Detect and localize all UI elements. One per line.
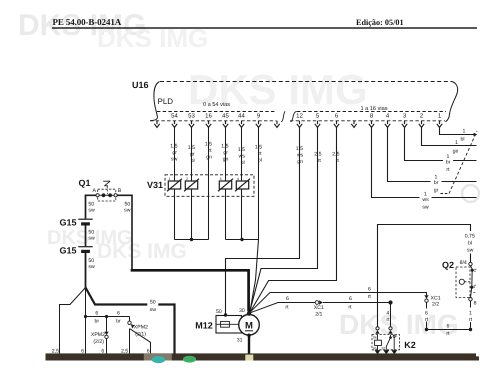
diode 1 [167, 179, 182, 192]
ground bar teal dot [152, 356, 166, 363]
wire Q1 A to G15 [86, 195, 97, 218]
junction dot right bar [240, 238, 243, 241]
Q1 bridge line [99, 194, 114, 196]
ground bar yellow smudge [245, 355, 253, 361]
ground bar end step [474, 356, 479, 360]
connector strip dashed line lower [150, 120, 277, 122]
pin arrow 16 [206, 121, 211, 128]
Q2 blade [471, 266, 473, 298]
pin arrow 3 [402, 121, 407, 128]
K2 contact blade [389, 336, 392, 339]
pin arrow 2 [419, 121, 424, 128]
wire pin 45 [225, 127, 227, 239]
control unit U16 PLD box [150, 82, 458, 122]
wire pin 16 [208, 127, 210, 239]
watermark ring right [462, 185, 479, 202]
wire label 6 rt [368, 286, 372, 300]
Q1 actuator lever [103, 181, 110, 186]
wire XC1 2/2 down to 6 rt bus [426, 302, 428, 329]
Q2 contact dot lower [470, 286, 473, 289]
wire pin 9 [258, 127, 260, 239]
solenoid coil symbol [216, 323, 221, 325]
pin arrow 5 [315, 121, 320, 128]
connector strip dashed line upper [157, 111, 277, 113]
terminal 50 junction dot [224, 313, 227, 316]
right group wires pins 12,5,6 [226, 127, 337, 313]
relay K2 [372, 327, 416, 354]
header rule [52, 27, 477, 29]
ground bar [46, 353, 477, 360]
wire pin 44 [241, 127, 243, 239]
wire label 50 sw [88, 202, 95, 214]
wire label 1 bl (pin1) [460, 129, 465, 143]
wire pin 12 to solenoid terminal 50 [226, 127, 300, 313]
wire Q2 terminal 8 to 6rt bus (1 rt) [470, 301, 472, 330]
pin arrow 1 [437, 121, 442, 128]
pin arrow 44 [239, 121, 244, 128]
wire label 1 br gr (pin4) [434, 174, 439, 193]
pin numbers row [171, 112, 442, 119]
Q1 contact dot left [102, 193, 106, 197]
junction blob 6rt/4rt corner [388, 300, 392, 304]
diode unit V31 dashed box [165, 175, 254, 197]
switch Q2 [442, 260, 477, 307]
pin arrow x354 [351, 121, 356, 128]
wire 6 rt bottom bus [427, 329, 471, 331]
connector XC1 2/1 symbol [315, 301, 319, 305]
pin arrow 8 [369, 121, 374, 128]
junction dot right [469, 328, 472, 331]
terminal 30 junction dot [247, 311, 251, 315]
G15 plate long [78, 246, 92, 248]
Q2 actuator dashed link [465, 281, 472, 283]
connector XPM2 2/2 [106, 317, 108, 332]
wire label 1,5 ws gn (pin12) [296, 146, 304, 165]
wire M12 terminal 30 to XC1 2/2 (6 rt) [250, 293, 427, 313]
wire label 50 sw [88, 229, 95, 241]
wire G15 down to Y node [85, 253, 87, 290]
wire label 0,75 bl sw [465, 234, 475, 254]
label XPM2 (2/1) [134, 325, 148, 338]
G15 plate long [78, 218, 92, 220]
label XC1 2/2 [431, 295, 441, 307]
G15 plate short thick [81, 222, 90, 225]
wire V31 right bar to M12 terminal 30 [250, 240, 259, 313]
U16 box top dashed edge [160, 81, 452, 83]
ground bar watermark light segment [144, 353, 172, 360]
diode 3 [218, 179, 233, 192]
wire label 1,5 ws bl (pin44) [238, 147, 246, 166]
wire label 50 sw [150, 299, 157, 313]
wire XPM2 2/1 to ground (2,5) [129, 329, 131, 354]
wire pin 8 [372, 127, 477, 197]
wire label 6 br [116, 310, 121, 324]
ground bar green dot [183, 356, 196, 363]
wire M12 terminal 30 to XC1 2/1 (6 rt) [250, 303, 316, 314]
label XC1 2/1 [314, 305, 324, 317]
diode 4 [235, 179, 250, 192]
wire label 2,5 rt (pin6) [332, 152, 339, 164]
wire label 1,5 rt bl (pin9) [255, 145, 262, 164]
connector group separator curve right [291, 111, 297, 122]
pin arrow 54 [172, 121, 177, 128]
wire label 1 ws sw (pin8) [422, 191, 429, 210]
Q1 dashed box [98, 189, 116, 201]
pin arrow 6 [334, 121, 339, 128]
pin arrow 45 [223, 121, 228, 128]
thick battery cable Q1 B to M12 terminal 30 [132, 269, 249, 312]
battery isolation switch Q1 [78, 178, 121, 201]
connector pin arrows [154, 121, 442, 128]
junction dot left [425, 328, 428, 331]
wire label 1 ge (pin2) [453, 140, 459, 154]
Q2 mechanism dashed box [456, 267, 470, 298]
Q1 terminal B circle [114, 194, 117, 197]
pin arrow x157 [154, 121, 159, 128]
Y node branch left to ground (2,5) [60, 288, 86, 354]
wire label 1 br rt (pin3) [446, 154, 451, 173]
starter motor M12 [195, 308, 259, 354]
battery G15 upper [59, 217, 95, 246]
V31 join bar left [175, 239, 209, 241]
K2 terminal right circle+arrow [389, 327, 392, 330]
U16 box left brace [151, 82, 160, 121]
wire between batteries [85, 226, 87, 247]
connector XC1 2/2 symbol [424, 295, 428, 299]
wire label 6 rt (vertical) [425, 311, 429, 323]
junction dot XPM2 2/2 tap [105, 315, 108, 318]
K2 terminal left circle+arrow [376, 327, 379, 330]
junction dot left bar [190, 238, 193, 241]
wire label 1 rt [469, 311, 473, 323]
terminal 31 dot [247, 334, 251, 338]
G15 plate short thick [81, 250, 90, 253]
V31 join bar right [226, 239, 259, 241]
dashed diagonal separator right [449, 131, 477, 194]
Q1 actuator dashed link [106, 187, 108, 195]
wire pin 6 to M12 terminal 30 [250, 127, 337, 312]
wire label 2,5 rt (pin5) [314, 152, 321, 164]
K2 ground stubs with arrows [375, 350, 379, 354]
wire pin 5 to M12 terminal 30 [250, 127, 318, 312]
wire M12 to ground bar [248, 335, 250, 353]
Y node branch right (50 sw to ground) [86, 288, 175, 354]
dashed tail at diagonal foot [441, 193, 450, 195]
wire XPM2 2/1 diagonal to ground (6) [130, 329, 151, 354]
M12 solenoid box [216, 316, 242, 334]
right group wires pins 8,4,3,2,1 [372, 127, 477, 197]
Q2 contact dot upper [471, 269, 474, 272]
Q2 terminal 8 circle [469, 298, 472, 301]
Y node center wire down to ground (6) [85, 288, 87, 354]
wire label 50 sw [124, 202, 131, 214]
6 br distribution bus [86, 316, 130, 318]
wire pin 3 [405, 127, 477, 160]
pin arrow x277 [274, 121, 279, 128]
battery G15 lower [59, 245, 95, 289]
wire pin 53 [191, 127, 193, 239]
wire XC1 2/1 to K2 terminal 30 (6 rt) [323, 303, 391, 327]
Q1 contact dot right [108, 193, 112, 197]
junction dot on Y wire [84, 315, 87, 318]
pin arrow 12 [297, 121, 302, 128]
connector XPM2 2/1 [129, 317, 131, 321]
pin arrow 4 [385, 121, 390, 128]
wire label 6 rt [446, 323, 450, 337]
wire label 4 rt [386, 311, 390, 323]
K2 coil [377, 335, 379, 341]
left group wires pins 54..9 [175, 127, 259, 312]
wire label 6 br [94, 310, 99, 324]
label XPM2 (2/2) [91, 332, 105, 345]
wire pin 1 [440, 127, 474, 134]
wire label 50 sw [88, 258, 95, 270]
wire pin 54 [174, 127, 176, 239]
wire pin 4 [388, 127, 477, 181]
connector group separator curve left [281, 111, 285, 121]
wire Q2 terminal 8/4 to K2 coil (0,75 bl sw) [378, 225, 471, 327]
wire label 1,5 gr bl (pin53) [188, 145, 195, 164]
K2 dashed box [372, 335, 400, 350]
pin arrow 53 [189, 121, 194, 128]
wire label 1,5 gr sw (pin54) [170, 144, 177, 163]
pin arrow 9 [256, 121, 261, 128]
arrowhead end of pin1 wire [474, 133, 478, 136]
U16 box right brace [446, 82, 458, 122]
wire label 6 rt [348, 296, 352, 311]
wire label 6 rt [285, 296, 289, 311]
wire label 1,5 rt gn (pin16) [205, 142, 212, 161]
diode 2 [184, 179, 199, 192]
motor circle [239, 315, 260, 336]
K2 contact fixed point [393, 335, 395, 337]
Q1 terminal A circle [96, 194, 99, 197]
wire pin 2 [422, 127, 477, 145]
Q2 terminal 8/4 circle [469, 262, 472, 265]
wire label 1,5 gr gn (pin45) [221, 144, 228, 163]
Q2 actuator circle [459, 279, 464, 284]
Q2 tiny terminal ticks [474, 268, 476, 270]
wire Q1 B down (50 sw) [117, 195, 132, 270]
